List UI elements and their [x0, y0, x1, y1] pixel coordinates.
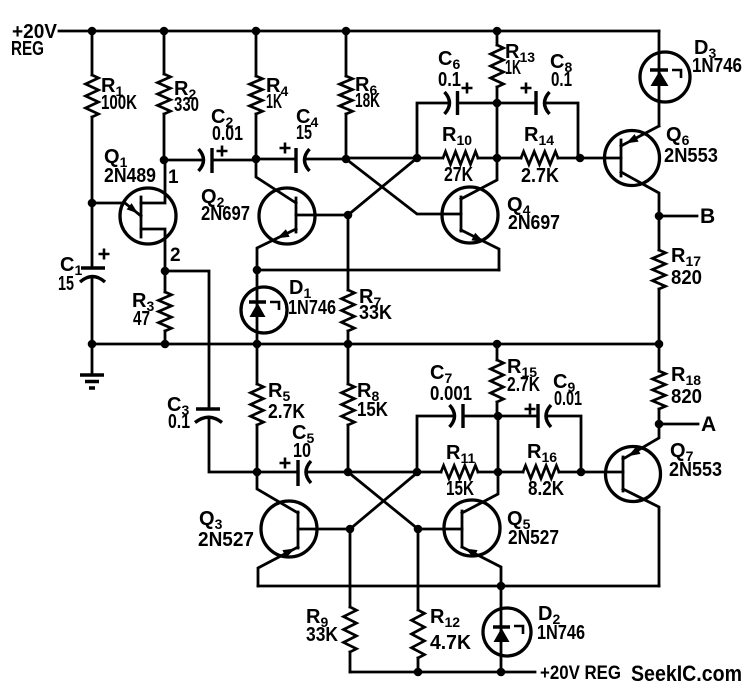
svg-text:15: 15: [296, 122, 312, 144]
svg-text:+20V REG: +20V REG: [540, 663, 621, 684]
svg-text:1N746: 1N746: [288, 297, 336, 319]
wire upper emitter line to D1: [257, 269, 499, 272]
svg-text:2: 2: [170, 245, 181, 266]
wire Q1 base2 (pin 2): [141, 229, 165, 271]
junction (418,672): [414, 668, 423, 677]
svg-text:0.01: 0.01: [554, 388, 582, 410]
svg-text:8.2K: 8.2K: [528, 478, 564, 500]
svg-text:1K: 1K: [266, 91, 282, 113]
junction (164,160): [160, 156, 169, 165]
wire R1 column: [91, 31, 94, 268]
resistor R15: [496, 344, 499, 416]
resistor R13: [496, 31, 499, 103]
junction (92,344): [88, 340, 97, 349]
junction (580,158): [576, 154, 585, 163]
svg-text:47: 47: [133, 308, 150, 330]
junction (350,529): [346, 525, 355, 534]
junction (418,529): [414, 525, 423, 534]
wire cross-couple diagonal R6-to-Q4base: [346, 159, 461, 214]
wire Q2 base: [296, 214, 348, 217]
wire Q1 base1 (pin 1): [141, 160, 165, 203]
wire C7C9 node to R11R16 node: [497, 416, 500, 472]
svg-text:2.7K: 2.7K: [521, 165, 559, 187]
svg-text:1N746: 1N746: [537, 622, 585, 644]
wire Q1 emitter: [92, 203, 141, 216]
wire R11 row horizontal: [348, 471, 581, 474]
wire Q5 collector: [462, 472, 498, 513]
node A: [659, 423, 698, 426]
svg-text:15: 15: [58, 273, 74, 295]
svg-text:33K: 33K: [359, 302, 392, 324]
svg-text:1N746: 1N746: [692, 55, 742, 77]
svg-text:15K: 15K: [446, 478, 474, 500]
junction (165,344): [161, 340, 170, 349]
svg-text:820: 820: [671, 267, 702, 289]
junction (659,344): [655, 340, 664, 349]
junction (498,472): [494, 468, 503, 477]
wire Q2 base node to R7: [347, 215, 350, 290]
wire top +20V rail: [59, 30, 659, 33]
junction (659,216): [655, 212, 664, 221]
resistor R14: [521, 152, 558, 165]
wire C1 to ground rail: [91, 277, 94, 344]
resistor R4: [250, 76, 263, 114]
junction (348,215): [344, 211, 353, 220]
wire R2 column: [163, 31, 166, 160]
resistor R18: [658, 344, 661, 424]
wire Q6 base: [580, 157, 621, 160]
junction (581,472): [577, 468, 586, 477]
wire Q6 emitter from D3: [621, 126, 659, 146]
resistor R11: [441, 466, 478, 479]
svg-text:B: B: [700, 205, 715, 228]
svg-text:0.01: 0.01: [212, 123, 243, 145]
svg-text:2N489: 2N489: [104, 165, 156, 187]
svg-text:A: A: [701, 413, 716, 436]
wire R6 column: [345, 31, 348, 159]
resistor R16: [523, 466, 559, 479]
wire Q7 base: [581, 471, 623, 474]
resistor R12: [417, 529, 420, 672]
wire cross-couple diagonal C6node-to-Q2base: [348, 158, 417, 215]
junction (164,31): [160, 27, 169, 36]
wire R10 row horizontal: [346, 158, 580, 159]
wire bottom +20V REG rail: [350, 671, 535, 674]
svg-text:100K: 100K: [101, 92, 137, 114]
wire R4 column: [255, 31, 258, 159]
wire Q7 collector: [623, 489, 659, 586]
wire Q2 collector: [256, 159, 296, 203]
svg-text:330: 330: [174, 94, 199, 116]
wire Q3 collector: [257, 472, 298, 513]
resistor R17: [658, 216, 661, 344]
svg-text:1K: 1K: [505, 57, 521, 79]
junction (497,103): [493, 99, 502, 108]
svg-text:SeekIC.com: SeekIC.com: [631, 661, 742, 686]
svg-text:2N553: 2N553: [669, 459, 722, 481]
svg-text:33K: 33K: [306, 624, 338, 646]
junction (501,672): [497, 668, 506, 677]
junction (257,270): [253, 266, 262, 275]
node B: [659, 215, 697, 218]
resistor R2: [158, 74, 171, 114]
resistor R7: [342, 290, 355, 331]
svg-text:0.001: 0.001: [430, 383, 472, 405]
svg-text:820: 820: [671, 386, 702, 408]
resistor R1: [86, 75, 99, 117]
wire mid ground rail: [92, 343, 659, 346]
wire Q2 emitter: [257, 229, 296, 270]
junction (256,159): [252, 155, 261, 164]
junction (92,203): [88, 199, 97, 208]
wire C3 to Q3 collector node: [209, 417, 257, 472]
svg-text:2N697: 2N697: [508, 212, 560, 234]
svg-text:0.1: 0.1: [438, 69, 461, 91]
wire Q4 emitter: [461, 230, 499, 270]
svg-text:2N553: 2N553: [664, 145, 718, 167]
junction (346,159): [342, 155, 351, 164]
wire pin2 node to C3: [165, 271, 209, 409]
resistor R6: [340, 76, 353, 114]
svg-text:0.1: 0.1: [168, 411, 190, 433]
wire cross-couple diagonal R8-to-Q5base: [348, 472, 462, 529]
wire Q7 emitter from node A: [623, 424, 659, 459]
junction (257,472): [253, 468, 262, 477]
svg-text:4.7K: 4.7K: [430, 632, 472, 654]
wire Q3 base lead: [298, 528, 350, 531]
resistor R3: [164, 271, 167, 344]
junction (348,472): [344, 468, 353, 477]
svg-text:27K: 27K: [444, 164, 473, 186]
ground: [91, 344, 94, 373]
wire C6C8 node to R10R14 node: [496, 103, 499, 158]
junction (257,344): [253, 340, 262, 349]
wire Q6 collector to node B: [621, 172, 659, 216]
junction (659,424): [655, 420, 664, 429]
resistor R9: [349, 529, 352, 672]
svg-text:18K: 18K: [355, 90, 380, 112]
junction (497,344): [493, 340, 502, 349]
resistor R10: [443, 152, 478, 165]
svg-text:10: 10: [293, 440, 311, 462]
wire lower emitter line: [258, 585, 659, 588]
junction (417,158): [413, 154, 422, 163]
junction (165,271): [161, 267, 170, 276]
svg-text:1: 1: [168, 167, 179, 188]
resistor R8: [347, 344, 350, 472]
svg-text:2N697: 2N697: [201, 203, 250, 225]
svg-text:0.1: 0.1: [551, 69, 572, 91]
junction (417,472): [413, 468, 422, 477]
junction (497,31): [493, 27, 502, 36]
svg-text:2.7K: 2.7K: [268, 401, 305, 423]
junction (498,416): [494, 412, 503, 421]
junction (346,31): [342, 27, 351, 36]
svg-text:15K: 15K: [357, 399, 388, 421]
junction (256,31): [252, 27, 261, 36]
svg-text:2.7K: 2.7K: [507, 374, 540, 396]
wire Q4 collector: [461, 158, 497, 199]
junction (501,586): [497, 582, 506, 591]
junction (92,31): [88, 27, 97, 36]
junction (348,344): [344, 340, 353, 349]
svg-text:2N527: 2N527: [198, 529, 254, 551]
svg-text:2N527: 2N527: [508, 527, 559, 549]
wire Q5 emitter: [462, 547, 501, 586]
resistor R5: [256, 344, 259, 472]
wire cross-couple diagonal C7node-to-Q3base: [350, 472, 418, 529]
junction (497,158): [493, 154, 502, 163]
wire Q3 emitter: [258, 547, 298, 586]
svg-text:REG: REG: [11, 38, 44, 60]
